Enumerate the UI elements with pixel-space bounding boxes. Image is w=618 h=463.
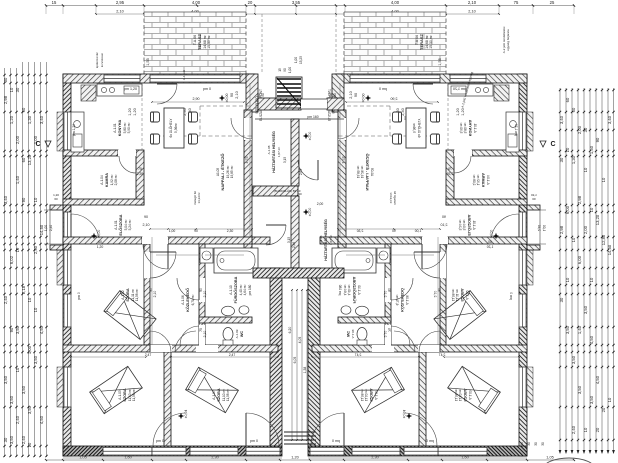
svg-text:2,36: 2,36 [292, 242, 296, 248]
svg-text:10: 10 [27, 297, 32, 302]
svg-text:(BURKOLÁS) 89 +0: (BURKOLÁS) 89 +0 [274, 189, 301, 193]
svg-text:4,64 m²: 4,64 m² [243, 285, 247, 296]
svg-text:3,40: 3,40 [3, 195, 8, 204]
svg-text:90: 90 [261, 93, 265, 97]
svg-text:A-1.06: A-1.06 [181, 295, 185, 305]
svg-text:KÖZLEKEDŐ: KÖZLEKEDŐ [400, 288, 405, 312]
svg-text:2,47: 2,47 [145, 353, 152, 357]
svg-text:19,85 m²: 19,85 m² [356, 166, 360, 179]
svg-text:HÁZTARTÁSI HELYISÉG: HÁZTARTÁSI HELYISÉG [271, 131, 276, 173]
svg-text:30: 30 [527, 442, 531, 446]
svg-text:3,40: 3,40 [559, 115, 564, 124]
svg-text:90: 90 [354, 93, 358, 97]
svg-text:90: 90 [21, 197, 26, 202]
svg-text:SZOBA: SZOBA [217, 388, 221, 402]
svg-text:2,10: 2,10 [203, 291, 207, 298]
svg-text:90: 90 [392, 229, 396, 233]
svg-text:egység bejárata: egység bejárata [506, 29, 510, 51]
svg-text:pm 0: pm 0 [332, 439, 340, 443]
svg-text:4,50: 4,50 [595, 375, 600, 384]
svg-text:6,71 m²: 6,71 m² [191, 295, 195, 306]
svg-text:30: 30 [3, 437, 8, 442]
svg-text:3,50: 3,50 [21, 385, 26, 394]
svg-text:A-1 jelű: A-1 jelű [182, 70, 186, 81]
svg-text:75: 75 [138, 167, 142, 171]
svg-text:A-1.08: A-1.08 [319, 235, 323, 244]
svg-text:A-1.01: A-1.01 [473, 123, 477, 133]
svg-text:A-1.01: A-1.01 [472, 220, 476, 230]
svg-text:60: 60 [54, 197, 58, 201]
svg-text:10: 10 [571, 237, 576, 242]
svg-text:1,38: 1,38 [303, 367, 307, 374]
svg-text:14,50: 14,50 [607, 244, 612, 255]
svg-text:3,40: 3,40 [607, 115, 612, 124]
svg-text:6,05: 6,05 [293, 357, 297, 364]
svg-text:90: 90 [230, 93, 234, 97]
svg-text:30: 30 [534, 442, 538, 446]
svg-text:2,00: 2,00 [583, 225, 588, 234]
svg-text:10: 10 [589, 277, 594, 282]
svg-text:±0,00: ±0,00 [308, 208, 312, 217]
svg-text:pm 0: pm 0 [379, 87, 387, 91]
svg-text:11,58 m²: 11,58 m² [132, 389, 136, 401]
svg-text:11,58 m²: 11,58 m² [454, 389, 458, 401]
svg-text:A-1.06: A-1.06 [405, 295, 409, 305]
svg-text:90: 90 [194, 229, 198, 233]
svg-text:90: 90 [595, 137, 600, 142]
svg-text:60: 60 [21, 107, 26, 112]
svg-text:10: 10 [607, 397, 612, 402]
svg-text:1,20: 1,20 [487, 245, 494, 249]
svg-text:6x ÜLŐHELY: 6x ÜLŐHELY [168, 118, 173, 138]
svg-text:2,10: 2,10 [116, 10, 123, 14]
svg-text:15: 15 [52, 0, 57, 5]
svg-text:2,10: 2,10 [468, 0, 477, 5]
svg-text:SZOBA: SZOBA [369, 388, 373, 402]
svg-text:NAPPALI - ÉTKEZŐ: NAPPALI - ÉTKEZŐ [365, 153, 370, 190]
svg-text:1,20: 1,20 [456, 108, 460, 115]
svg-text:±0,00: ±0,00 [361, 94, 365, 103]
svg-text:2,10: 2,10 [153, 291, 157, 298]
svg-text:A-1.08: A-1.08 [267, 145, 271, 154]
svg-text:30: 30 [3, 77, 8, 82]
svg-text:4,50: 4,50 [39, 325, 44, 334]
svg-text:6,00: 6,00 [565, 205, 570, 214]
svg-text:2,10: 2,10 [203, 331, 207, 338]
svg-text:1,00: 1,00 [27, 345, 32, 354]
svg-text:1,20: 1,20 [53, 193, 59, 197]
svg-text:A-1.02: A-1.02 [465, 290, 469, 300]
svg-text:3,50: 3,50 [565, 325, 570, 334]
svg-text:6,20: 6,20 [288, 327, 292, 334]
svg-text:60: 60 [532, 197, 536, 201]
svg-text:5,90 m²: 5,90 m² [459, 123, 463, 134]
svg-text:2,08 m²: 2,08 m² [472, 175, 476, 186]
svg-text:60: 60 [565, 97, 570, 102]
svg-text:2,95: 2,95 [116, 0, 125, 5]
svg-text:3,50: 3,50 [589, 395, 594, 404]
svg-text:13,22m²: 13,22m² [389, 192, 393, 203]
svg-text:2,47: 2,47 [355, 353, 362, 357]
svg-text:1,00: 1,00 [294, 57, 298, 63]
svg-text:konzolosan: konzolosan [100, 52, 104, 67]
svg-text:25: 25 [550, 0, 555, 5]
svg-text:1,40: 1,40 [577, 325, 582, 334]
svg-text:6,71 m²: 6,71 m² [395, 295, 399, 306]
svg-text:3,15: 3,15 [287, 237, 291, 243]
svg-text:WC: WC [346, 331, 350, 338]
svg-text:2,40: 2,40 [3, 295, 8, 304]
svg-text:pm 1,20: pm 1,20 [124, 87, 137, 91]
svg-text:3,55: 3,55 [292, 0, 301, 5]
svg-text:30: 30 [559, 157, 564, 162]
svg-text:1,20: 1,20 [133, 108, 137, 115]
svg-text:1,87 m²: 1,87 m² [277, 147, 281, 157]
svg-text:2,10: 2,10 [441, 223, 448, 227]
svg-text:4,50: 4,50 [39, 415, 44, 424]
svg-text:A-1.04: A-1.04 [486, 175, 490, 185]
svg-text:90: 90 [9, 327, 14, 332]
svg-text:5,36m²: 5,36m² [174, 123, 178, 133]
svg-text:A-1.03: A-1.03 [468, 390, 472, 400]
svg-text:20: 20 [601, 407, 606, 412]
svg-text:ELŐSZOBA: ELŐSZOBA [467, 214, 472, 235]
svg-text:2,10: 2,10 [433, 291, 437, 298]
svg-text:12,80: 12,80 [601, 234, 606, 245]
svg-text:pm 0: pm 0 [203, 87, 211, 91]
svg-text:FÜRDŐSZOBA: FÜRDŐSZOBA [233, 276, 238, 303]
svg-text:1,20: 1,20 [531, 193, 537, 197]
svg-text:4,64 m²: 4,64 m² [343, 285, 347, 296]
svg-text:NAPPALI - ÉTKEZŐ: NAPPALI - ÉTKEZŐ [220, 153, 225, 190]
svg-text:KAMRA: KAMRA [105, 173, 109, 187]
svg-text:6,02: 6,02 [9, 255, 14, 264]
svg-text:5,90 m²: 5,90 m² [127, 123, 131, 134]
svg-text:2,98: 2,98 [577, 195, 582, 204]
svg-text:3,50: 3,50 [571, 355, 576, 364]
svg-text:11,58 m²: 11,58 m² [226, 389, 230, 401]
svg-text:1,00: 1,00 [415, 229, 422, 233]
svg-text:3,50: 3,50 [15, 325, 20, 334]
svg-text:A-1.09: A-1.09 [351, 329, 355, 338]
svg-text:1,55: 1,55 [438, 58, 442, 65]
svg-text:A-1.01: A-1.01 [113, 123, 117, 133]
svg-text:A-1.07: A-1.07 [212, 390, 216, 400]
svg-text:1,20: 1,20 [9, 115, 14, 124]
svg-text:90: 90 [442, 215, 446, 219]
svg-text:pm 160: pm 160 [307, 115, 318, 119]
svg-text:60: 60 [488, 240, 492, 244]
svg-text:2,18: 2,18 [21, 285, 26, 294]
svg-text:10: 10 [15, 367, 20, 372]
svg-text:60: 60 [333, 93, 337, 97]
svg-text:13,20: 13,20 [595, 214, 600, 225]
svg-text:10: 10 [27, 442, 32, 447]
svg-text:±0,04: ±0,04 [402, 410, 406, 419]
svg-text:±0,00: ±0,00 [97, 230, 101, 239]
svg-text:15: 15 [278, 68, 282, 72]
svg-text:pm 0: pm 0 [509, 292, 513, 300]
svg-text:1,55: 1,55 [146, 58, 150, 65]
svg-text:C: C [35, 141, 40, 148]
svg-text:KAMRA: KAMRA [481, 173, 485, 187]
svg-text:pm 180: pm 180 [248, 284, 252, 295]
svg-text:5,36m²: 5,36m² [412, 123, 416, 133]
svg-text:2,40: 2,40 [571, 425, 576, 434]
svg-text:10: 10 [33, 197, 38, 202]
svg-text:±0,04: ±0,04 [184, 410, 188, 419]
svg-text:ELŐSZOBA: ELŐSZOBA [118, 214, 123, 235]
svg-text:10: 10 [15, 247, 20, 252]
svg-text:2,90: 2,90 [391, 97, 398, 101]
svg-text:SZOBA: SZOBA [463, 388, 467, 402]
svg-text:1,30: 1,30 [571, 155, 576, 164]
svg-text:1,05: 1,05 [546, 456, 553, 460]
svg-text:10: 10 [583, 167, 588, 172]
svg-text:2,40: 2,40 [49, 225, 53, 231]
svg-text:2,10: 2,10 [349, 91, 353, 98]
svg-text:10: 10 [33, 307, 38, 312]
svg-text:2,30: 2,30 [357, 229, 364, 233]
svg-text:2,98: 2,98 [559, 225, 564, 234]
svg-text:60: 60 [98, 240, 102, 244]
svg-text:A-1.03: A-1.03 [118, 390, 122, 400]
svg-text:SZOBA: SZOBA [123, 388, 127, 402]
svg-text:SZOBA: SZOBA [460, 288, 464, 302]
svg-text:A-1.10: A-1.10 [357, 285, 361, 295]
svg-text:20: 20 [248, 0, 253, 5]
svg-text:FÜRDŐSZOBA: FÜRDŐSZOBA [352, 276, 357, 303]
svg-text:TERASZ: TERASZ [197, 33, 202, 50]
svg-text:90: 90 [329, 93, 333, 97]
svg-text:2,10: 2,10 [468, 10, 475, 14]
svg-text:2,47: 2,47 [229, 353, 236, 357]
svg-text:2,40: 2,40 [537, 225, 541, 231]
svg-text:30: 30 [15, 87, 20, 92]
svg-text:90: 90 [283, 68, 287, 72]
svg-text:2,00: 2,00 [577, 125, 582, 134]
svg-text:4,75: 4,75 [245, 157, 249, 164]
svg-text:10: 10 [565, 277, 570, 282]
svg-text:1,20: 1,20 [461, 108, 465, 115]
svg-text:A-1.09: A-1.09 [235, 329, 239, 338]
svg-text:5,24 m²: 5,24 m² [458, 220, 462, 231]
svg-text:60: 60 [571, 107, 576, 112]
svg-text:4,00: 4,00 [391, 0, 400, 5]
svg-text:2,39: 2,39 [137, 172, 144, 176]
svg-text:pm 0: pm 0 [250, 439, 258, 443]
svg-text:11,58 m²: 11,58 m² [360, 389, 364, 401]
svg-text:30: 30 [559, 297, 564, 302]
svg-text:SZOBA: SZOBA [126, 288, 130, 302]
svg-text:1,20: 1,20 [128, 108, 132, 115]
svg-text:2,08 m²: 2,08 m² [114, 175, 118, 186]
svg-text:2,90: 2,90 [193, 97, 200, 101]
svg-text:2,10: 2,10 [383, 331, 387, 338]
svg-text:3,50: 3,50 [577, 385, 582, 394]
svg-text:1,20: 1,20 [97, 245, 104, 249]
svg-text:3,50: 3,50 [9, 395, 14, 404]
svg-text:10: 10 [583, 427, 588, 432]
svg-text:2,40: 2,40 [21, 435, 26, 444]
svg-text:2,50: 2,50 [33, 245, 38, 254]
svg-text:4,75: 4,75 [341, 157, 345, 164]
svg-text:2,40: 2,40 [15, 415, 20, 424]
svg-text:15,30 m²: 15,30 m² [429, 34, 433, 48]
svg-text:KONYHA: KONYHA [118, 120, 122, 137]
svg-text:6x ÜLŐHELY: 6x ÜLŐHELY [417, 118, 422, 138]
svg-text:pm 1,20: pm 1,20 [514, 124, 518, 136]
svg-text:2,47: 2,47 [439, 353, 446, 357]
svg-text:3,50: 3,50 [33, 355, 38, 364]
svg-text:4,05: 4,05 [298, 337, 302, 344]
svg-text:2,10: 2,10 [143, 223, 150, 227]
svg-text:2,10: 2,10 [383, 291, 387, 298]
svg-text:4,00: 4,00 [192, 0, 201, 5]
svg-text:90: 90 [144, 215, 148, 219]
svg-text:2,39: 2,39 [447, 172, 454, 176]
svg-text:pm 180: pm 180 [338, 284, 342, 295]
svg-text:±0,00: ±0,00 [489, 230, 493, 239]
svg-text:4,50: 4,50 [589, 335, 594, 344]
svg-text:1,00: 1,00 [542, 225, 546, 231]
svg-text:±0,00: ±0,00 [225, 94, 229, 103]
svg-text:2,00: 2,00 [317, 202, 324, 206]
svg-text:1,87 m²: 1,87 m² [329, 235, 333, 245]
svg-text:30: 30 [583, 127, 588, 132]
svg-text:2,30: 2,30 [227, 229, 234, 233]
svg-text:2,10: 2,10 [235, 91, 239, 98]
svg-text:pm 1,20: pm 1,20 [72, 124, 76, 136]
svg-text:1,20: 1,20 [291, 456, 298, 460]
svg-text:2,00: 2,00 [15, 135, 20, 144]
svg-text:1,00: 1,00 [169, 229, 176, 233]
svg-text:10: 10 [589, 207, 594, 212]
svg-text:pm 0: pm 0 [426, 439, 434, 443]
svg-text:15,25: 15,25 [299, 56, 303, 64]
svg-text:WC: WC [240, 331, 244, 338]
svg-text:1,00: 1,00 [288, 67, 292, 73]
svg-text:30: 30 [520, 442, 524, 446]
svg-text:2,98: 2,98 [3, 95, 8, 104]
svg-text:A-1.01: A-1.01 [114, 220, 118, 230]
svg-text:C: C [550, 141, 555, 148]
svg-text:75: 75 [514, 0, 519, 5]
svg-text:1,00: 1,00 [44, 225, 48, 231]
svg-text:15,30 m²: 15,30 m² [207, 34, 211, 48]
svg-text:60: 60 [21, 157, 26, 162]
svg-text:KONYHA: KONYHA [468, 120, 472, 137]
svg-text:20: 20 [595, 427, 600, 432]
svg-text:3,50: 3,50 [583, 305, 588, 314]
svg-text:3,40: 3,40 [39, 115, 44, 124]
svg-text:1,30: 1,30 [27, 115, 32, 124]
svg-text:19,85 m²: 19,85 m² [230, 166, 234, 179]
svg-text:A-1.07: A-1.07 [374, 390, 378, 400]
svg-text:75: 75 [448, 167, 452, 171]
svg-text:10: 10 [601, 177, 606, 182]
svg-text:13,20: 13,20 [27, 154, 32, 165]
svg-text:épület kontúr: épület kontúr [95, 52, 99, 68]
svg-text:A-1.04: A-1.04 [100, 175, 104, 185]
svg-text:KÖZLEKEDŐ: KÖZLEKEDŐ [185, 288, 190, 312]
svg-text:11,58 m²: 11,58 m² [135, 289, 139, 301]
svg-text:±0,00: ±0,00 [308, 132, 312, 141]
svg-text:3,50: 3,50 [27, 405, 32, 414]
svg-text:pm 0: pm 0 [77, 292, 81, 300]
svg-text:HÁZTARTÁSI HELYISÉG: HÁZTARTÁSI HELYISÉG [323, 219, 328, 261]
svg-text:3,50: 3,50 [9, 435, 14, 444]
svg-text:30: 30 [541, 442, 545, 446]
svg-text:10: 10 [565, 147, 570, 152]
svg-text:3,15: 3,15 [283, 157, 287, 163]
svg-text:6,00: 6,00 [577, 255, 582, 264]
svg-text:10: 10 [9, 87, 14, 92]
svg-text:A-1.02: A-1.02 [121, 290, 125, 300]
svg-text:1,40: 1,40 [15, 175, 20, 184]
svg-text:1,50: 1,50 [589, 145, 594, 154]
svg-text:11,58 m²: 11,58 m² [451, 289, 455, 301]
svg-text:30: 30 [298, 192, 302, 196]
svg-text:2,65: 2,65 [299, 169, 303, 175]
svg-text:5,24 m²: 5,24 m² [128, 220, 132, 231]
svg-text:3,50: 3,50 [3, 375, 8, 384]
svg-text:13,22m²: 13,22m² [197, 192, 201, 203]
svg-text:TERASZ: TERASZ [419, 33, 424, 50]
svg-text:A-1.10: A-1.10 [229, 285, 233, 295]
svg-text:pm 0: pm 0 [156, 439, 164, 443]
